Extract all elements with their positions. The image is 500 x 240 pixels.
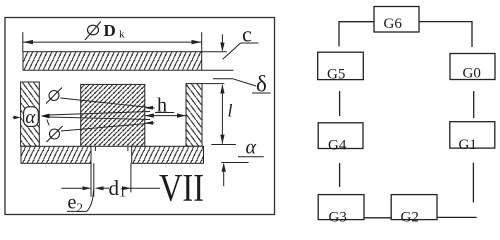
svg-text:D: D xyxy=(104,21,116,40)
svg-text:2: 2 xyxy=(77,200,84,215)
box G1 xyxy=(450,122,495,153)
svg-text:d: d xyxy=(109,176,120,200)
svg-text:k: k xyxy=(119,29,125,41)
wire G6 to G5 xyxy=(339,22,374,47)
label d1 xyxy=(109,176,127,201)
left wall (hatched) xyxy=(21,82,40,146)
box G5 xyxy=(318,52,364,82)
lower diameter symbol xyxy=(47,126,63,142)
alpha bottom arrow xyxy=(222,163,226,186)
bottom plate left section xyxy=(21,146,91,163)
extension line low xyxy=(221,162,248,164)
svg-text:G3: G3 xyxy=(329,210,347,226)
alpha bubble in left wall xyxy=(24,107,39,128)
central block (hatched) xyxy=(81,84,145,146)
dimension c arrow xyxy=(220,34,224,51)
wire G1 down xyxy=(472,163,474,203)
big left arrow at wall xyxy=(41,112,150,120)
dimension l xyxy=(220,84,224,143)
wire G5 to G4 xyxy=(339,91,341,116)
dimension l extension top xyxy=(202,83,224,85)
label alpha right xyxy=(238,136,264,158)
box G0 xyxy=(450,54,495,82)
svg-text:G4: G4 xyxy=(328,138,347,154)
label diameter Dk xyxy=(85,21,125,41)
wire G6 to G0 xyxy=(419,22,472,47)
svg-text:G5: G5 xyxy=(327,66,345,82)
upper diameter symbol xyxy=(46,88,62,104)
box G4 xyxy=(318,123,363,154)
wire G3 to G2 xyxy=(364,217,391,219)
bottom plate right section xyxy=(132,146,204,163)
dimension e2 arrow xyxy=(61,186,91,190)
label h xyxy=(155,95,174,117)
svg-text:G1: G1 xyxy=(459,137,477,153)
box G6 xyxy=(374,7,419,33)
extension lines under hole xyxy=(91,163,131,196)
wire G0 to G1 xyxy=(473,91,475,118)
svg-text:h: h xyxy=(157,95,167,117)
label e2 xyxy=(67,190,94,215)
lower leader line xyxy=(61,121,154,131)
dimension Dk xyxy=(23,32,202,52)
notch corner ticks xyxy=(94,147,96,151)
svg-text:α: α xyxy=(25,107,36,128)
small tick below wall arrow xyxy=(47,120,49,126)
label c xyxy=(223,22,259,60)
extension line mid xyxy=(211,144,236,146)
right column (hatched) xyxy=(186,84,202,147)
dimension d1 xyxy=(95,186,161,190)
label delta xyxy=(213,72,271,97)
svg-text:G0: G0 xyxy=(463,65,481,81)
upper leader line xyxy=(61,98,155,110)
svg-text:G6: G6 xyxy=(384,16,403,32)
top plate (hatched bar) xyxy=(23,52,234,70)
svg-text:1: 1 xyxy=(119,186,126,201)
wire G4 to G3 xyxy=(339,163,341,187)
box G2 xyxy=(391,195,437,226)
dimension h xyxy=(145,113,186,117)
svg-text:e: e xyxy=(68,192,77,214)
svg-text:VII: VII xyxy=(159,167,204,210)
arrow to alpha xyxy=(13,116,21,120)
svg-text:α: α xyxy=(246,136,257,158)
svg-text:G2: G2 xyxy=(401,210,419,226)
wire G2 right xyxy=(437,216,477,218)
svg-text:l: l xyxy=(228,101,233,121)
box G3 xyxy=(318,195,364,226)
